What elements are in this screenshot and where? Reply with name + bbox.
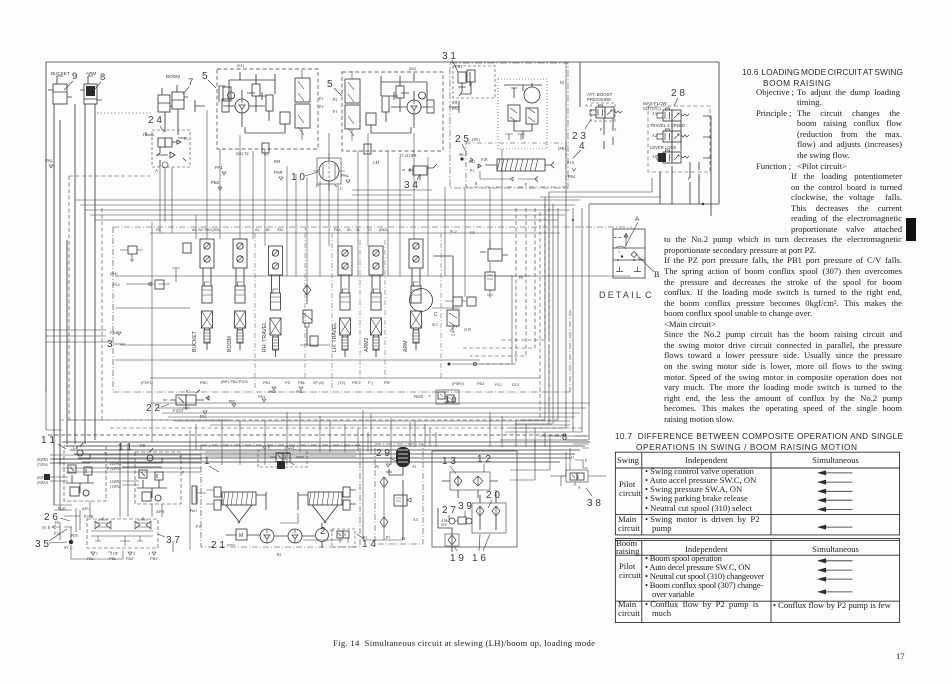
valve bank outline bbox=[113, 227, 632, 392]
swing brake valve block 12/13/16/19/20 bbox=[375, 447, 517, 564]
lower horizontal dashed run bbox=[110, 427, 582, 429]
wire drops from right block bbox=[540, 174, 660, 340]
20 diamonds bbox=[472, 503, 506, 533]
valve stack LH bbox=[345, 79, 360, 103]
boom conflux block 25/4 bbox=[455, 134, 585, 187]
black tab on right edge bbox=[906, 218, 916, 241]
swivel joint circle 10 bbox=[291, 133, 345, 191]
wire corners joining bundle bbox=[500, 420, 587, 440]
wires to component 38 bbox=[510, 435, 606, 480]
wire left frame drop bbox=[46, 390, 62, 430]
dashed pilot line across bbox=[48, 434, 566, 436]
wire drops center bbox=[363, 410, 410, 520]
conflux spool 307 with hatch bbox=[497, 159, 545, 171]
wires to pedal valve block bbox=[54, 444, 173, 552]
return lines below valve bank bbox=[150, 403, 590, 421]
detail C reference circle bbox=[410, 289, 433, 312]
wire stubs near label 8 bbox=[540, 436, 587, 476]
main block 1 travel motors bbox=[190, 445, 360, 557]
label 2 and valve 14 in block 1 bbox=[320, 526, 376, 550]
wire below pedal box bbox=[71, 545, 123, 559]
valve bank top port labels bbox=[156, 228, 475, 235]
pilot section dash-dot box Df bbox=[450, 63, 568, 188]
outer frame left border bbox=[45, 62, 47, 392]
check valve box bbox=[450, 472, 490, 490]
objective block bbox=[756, 87, 902, 235]
dashed pilot return across bbox=[60, 419, 560, 421]
wire stubs right of bundle bbox=[553, 436, 589, 448]
right pedal pair bbox=[135, 517, 151, 529]
valve bank bottom port labels bbox=[141, 380, 519, 394]
CV spool column: LH TRAVEL bbox=[332, 246, 352, 357]
right end of bank components bbox=[432, 240, 531, 366]
wire drops from bundle to block 1 bbox=[190, 412, 368, 550]
CV spool column: ARM2 bbox=[364, 246, 383, 357]
left pedal pair bbox=[95, 517, 111, 529]
pump circle LH bbox=[407, 100, 421, 114]
CV spool column: BUCKET bbox=[192, 239, 214, 352]
table 2: boom raising bbox=[616, 539, 639, 555]
aux check column bbox=[303, 284, 318, 346]
figure caption bbox=[333, 638, 595, 648]
vertical dashed bundle right bbox=[462, 204, 545, 364]
CV spool column: BOOM bbox=[227, 239, 247, 352]
B marker next to detail C bbox=[654, 270, 659, 279]
CV spool column: ARM bbox=[403, 239, 438, 352]
valve bank internal dash-dot separators bbox=[255, 233, 441, 390]
outer frame top border bbox=[46, 61, 719, 63]
19 valve bbox=[445, 534, 459, 546]
CV spool column: RH TRAVEL bbox=[262, 246, 283, 357]
component 38 bbox=[561, 456, 601, 509]
full width paragraph bbox=[664, 234, 902, 424]
pump circle RH bbox=[235, 99, 249, 113]
wire from arm area to 24 bbox=[97, 112, 152, 114]
att boost pressure 23 bbox=[572, 92, 622, 149]
swing pilot column box A3 bbox=[363, 444, 423, 544]
component 30 bbox=[414, 390, 459, 405]
vertical pipes into bank bbox=[152, 110, 512, 442]
wire from 29 accumulator to block 1 bbox=[303, 520, 403, 540]
valve stack RH bbox=[295, 78, 310, 102]
bucket cylinder bbox=[48, 71, 72, 104]
component 34 bbox=[402, 164, 437, 191]
swing motor block bbox=[498, 79, 547, 149]
horizontal pipes upper mid bbox=[75, 200, 580, 220]
component 22 pressure reducing bbox=[146, 390, 236, 419]
left mid labels bbox=[110, 271, 121, 335]
max-flow cutoff block 28 bbox=[643, 88, 711, 216]
section 10.7 heading bbox=[615, 431, 903, 441]
box (A22) small solenoid bbox=[258, 446, 307, 469]
detail C inset bbox=[599, 216, 654, 300]
pump box 5 LH bbox=[327, 66, 459, 165]
section 10.6 heading bbox=[742, 67, 903, 77]
block 26/35/37 pedal valves bbox=[35, 506, 180, 561]
outer frame right block border bbox=[580, 62, 719, 204]
left vertical pipe bundle bbox=[54, 104, 95, 505]
boom cylinders bbox=[158, 74, 188, 135]
port labels mid bbox=[45, 158, 350, 185]
pump circles bbox=[260, 529, 274, 543]
long pilot feed lines to bottom blocks bbox=[50, 455, 201, 472]
page number bbox=[896, 651, 905, 661]
wire drops to swing brake block bbox=[415, 412, 545, 447]
left travel spool bbox=[222, 492, 256, 505]
pedal valve box bbox=[87, 519, 158, 548]
component 2 area bbox=[453, 297, 462, 306]
dashed pilot box left bbox=[69, 176, 230, 420]
main horizontal pipe bundle bbox=[62, 442, 590, 462]
component 24 pilot valve bbox=[143, 115, 190, 173]
box 31 pilot source bbox=[442, 51, 495, 111]
arm cylinder bbox=[80, 71, 102, 104]
right travel spool bbox=[308, 492, 342, 505]
pilot block 11 LH bbox=[37, 435, 109, 501]
pump box 5 RH bbox=[195, 63, 323, 164]
pilot block 11 RH bbox=[110, 442, 184, 504]
